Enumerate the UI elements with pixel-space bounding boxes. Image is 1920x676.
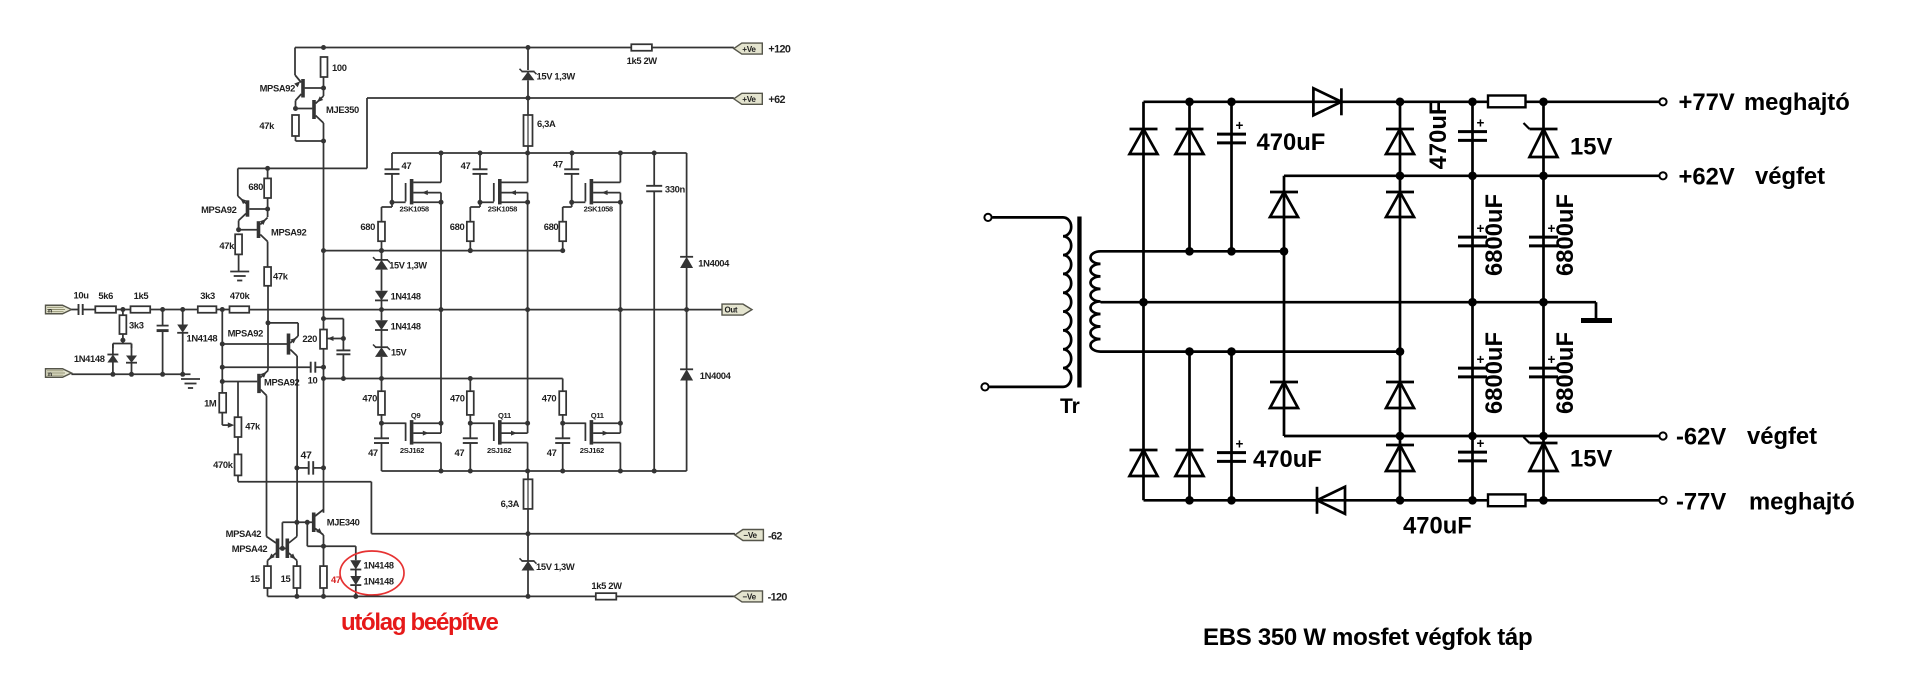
svg-text:+120: +120 (768, 43, 791, 55)
svg-text:+: + (1236, 437, 1244, 452)
svg-text:Q11: Q11 (591, 411, 605, 420)
svg-text:330n: 330n (665, 183, 686, 194)
svg-text:utólag beépítve: utólag beépítve (341, 609, 498, 636)
svg-text:15: 15 (281, 573, 291, 584)
svg-text:680: 680 (544, 221, 559, 232)
svg-text:MPSA42: MPSA42 (232, 543, 268, 554)
svg-text:MPSA92: MPSA92 (260, 83, 296, 94)
svg-text:1N4148: 1N4148 (364, 561, 394, 571)
svg-text:3k3: 3k3 (129, 320, 144, 331)
svg-text:470k: 470k (230, 290, 251, 301)
svg-text:15V 1,3W: 15V 1,3W (536, 561, 575, 572)
svg-text:+Ve: +Ve (742, 45, 756, 54)
svg-text:−Ve: −Ve (743, 531, 757, 540)
svg-text:15: 15 (250, 573, 260, 584)
svg-text:220: 220 (302, 333, 317, 344)
svg-text:100: 100 (332, 62, 347, 73)
svg-text:n: n (48, 307, 52, 314)
svg-text:15V 1,3W: 15V 1,3W (537, 71, 576, 82)
svg-text:+: + (1236, 118, 1244, 133)
svg-text:végfet: végfet (1755, 163, 1825, 190)
svg-text:+77V: +77V (1679, 89, 1735, 116)
svg-text:6800uF: 6800uF (1552, 332, 1579, 414)
svg-text:15V: 15V (391, 348, 408, 358)
svg-text:1N4148: 1N4148 (391, 292, 421, 302)
svg-text:Out: Out (725, 305, 738, 314)
svg-text:-120: -120 (768, 591, 788, 603)
svg-text:+Ve: +Ve (742, 95, 756, 104)
svg-text:47: 47 (461, 160, 471, 171)
svg-text:1N4004: 1N4004 (698, 258, 730, 269)
svg-text:47: 47 (553, 159, 563, 170)
svg-text:47: 47 (402, 160, 412, 171)
svg-text:2SK1058: 2SK1058 (488, 205, 517, 214)
svg-text:15V 1,3W: 15V 1,3W (389, 260, 427, 270)
svg-text:MJE350: MJE350 (326, 104, 359, 115)
svg-text:3k3: 3k3 (200, 290, 215, 301)
svg-text:6800uF: 6800uF (1552, 194, 1579, 276)
svg-text:47: 47 (454, 447, 464, 458)
svg-text:+: + (1477, 436, 1485, 451)
svg-text:végfet: végfet (1747, 423, 1817, 450)
svg-text:47: 47 (368, 447, 378, 458)
svg-text:470uF: 470uF (1257, 129, 1326, 156)
svg-text:+62V: +62V (1679, 164, 1735, 191)
svg-text:meghajtó: meghajtó (1749, 489, 1855, 516)
svg-text:470: 470 (450, 393, 465, 404)
svg-text:+62: +62 (768, 94, 785, 106)
svg-text:6800uF: 6800uF (1481, 194, 1508, 276)
svg-text:47: 47 (547, 447, 557, 458)
svg-text:2SK1058: 2SK1058 (584, 205, 613, 214)
svg-text:n: n (48, 371, 52, 378)
svg-text:2SJ162: 2SJ162 (487, 446, 511, 455)
svg-text:6,3A: 6,3A (537, 118, 556, 129)
svg-text:5k6: 5k6 (98, 290, 113, 301)
svg-text:470: 470 (542, 393, 557, 404)
svg-text:47: 47 (331, 574, 341, 585)
svg-text:15V: 15V (1570, 446, 1612, 473)
svg-text:470uF: 470uF (1403, 513, 1472, 540)
svg-text:470uF: 470uF (1253, 446, 1322, 473)
svg-text:MPSA92: MPSA92 (271, 227, 307, 238)
svg-text:15V: 15V (1570, 134, 1612, 161)
svg-text:2SJ162: 2SJ162 (580, 446, 604, 455)
svg-text:1N4148: 1N4148 (187, 333, 218, 344)
svg-text:1k5 2W: 1k5 2W (591, 580, 622, 591)
svg-text:MPSA92: MPSA92 (228, 327, 264, 338)
svg-text:680: 680 (360, 221, 375, 232)
svg-text:47k: 47k (259, 120, 275, 131)
svg-text:470: 470 (362, 393, 377, 404)
svg-text:2SJ162: 2SJ162 (400, 446, 424, 455)
svg-text:6800uF: 6800uF (1481, 332, 1508, 414)
svg-text:MPSA92: MPSA92 (264, 377, 300, 388)
svg-text:MJE340: MJE340 (327, 517, 360, 528)
svg-text:47: 47 (301, 449, 312, 461)
svg-text:10: 10 (308, 375, 318, 386)
svg-text:47k: 47k (273, 271, 289, 282)
svg-text:-77V: -77V (1676, 489, 1726, 516)
svg-text:-62V: -62V (1676, 424, 1726, 451)
svg-text:47k: 47k (245, 421, 261, 432)
svg-text:470k: 470k (213, 459, 234, 470)
svg-text:MPSA92: MPSA92 (201, 204, 237, 215)
svg-text:MPSA42: MPSA42 (226, 528, 262, 539)
svg-text:−Ve: −Ve (743, 593, 757, 602)
svg-text:Q9: Q9 (411, 411, 421, 420)
svg-text:-62: -62 (768, 530, 782, 542)
svg-text:10u: 10u (74, 290, 90, 301)
svg-text:470uF: 470uF (1425, 101, 1452, 170)
svg-text:1k5: 1k5 (134, 290, 149, 301)
svg-text:Q11: Q11 (498, 411, 512, 420)
svg-text:680: 680 (450, 221, 465, 232)
svg-text:680: 680 (248, 181, 263, 192)
svg-text:1k5 2W: 1k5 2W (627, 55, 658, 66)
svg-text:1N4004: 1N4004 (700, 370, 732, 381)
svg-text:1N4148: 1N4148 (74, 353, 105, 364)
svg-text:EBS 350 W mosfet végfok táp: EBS 350 W mosfet végfok táp (1203, 624, 1532, 651)
svg-text:+: + (1477, 116, 1485, 131)
svg-text:1N4148: 1N4148 (364, 577, 394, 587)
svg-text:1M: 1M (204, 398, 217, 409)
svg-text:2SK1058: 2SK1058 (400, 205, 429, 214)
svg-text:1N4148: 1N4148 (391, 321, 421, 331)
svg-text:meghajtó: meghajtó (1744, 89, 1850, 116)
svg-text:Tr: Tr (1060, 395, 1080, 418)
svg-text:6,3A: 6,3A (501, 498, 520, 509)
svg-text:47k: 47k (219, 240, 235, 251)
